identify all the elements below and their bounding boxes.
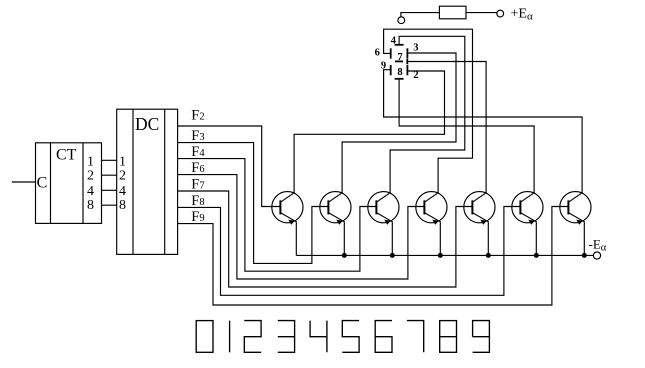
svg-text:6: 6 xyxy=(375,47,380,58)
svg-text:2: 2 xyxy=(87,169,94,184)
svg-text:8: 8 xyxy=(119,198,126,213)
svg-text:4: 4 xyxy=(391,35,397,46)
svg-text:8: 8 xyxy=(397,67,402,78)
svg-text:DC: DC xyxy=(135,114,159,134)
svg-text:4: 4 xyxy=(87,184,94,199)
svg-text:C: C xyxy=(37,174,48,191)
svg-text:2: 2 xyxy=(413,70,418,81)
svg-text:1: 1 xyxy=(119,154,126,169)
svg-text:9: 9 xyxy=(381,61,386,72)
svg-text:CT: CT xyxy=(56,146,77,163)
svg-text:3: 3 xyxy=(413,43,418,54)
svg-text:1: 1 xyxy=(87,154,94,169)
svg-text:2: 2 xyxy=(119,169,126,184)
svg-text:4: 4 xyxy=(119,184,126,199)
svg-text:7: 7 xyxy=(397,52,402,63)
svg-text:8: 8 xyxy=(87,198,94,213)
